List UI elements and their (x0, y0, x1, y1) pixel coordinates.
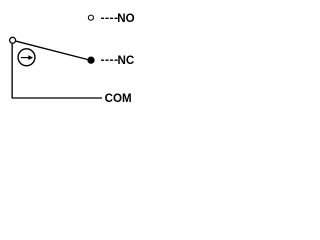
svg-text:NO: NO (117, 12, 134, 25)
svg-text:COM: COM (105, 92, 132, 105)
svg-text:NC: NC (118, 54, 135, 67)
